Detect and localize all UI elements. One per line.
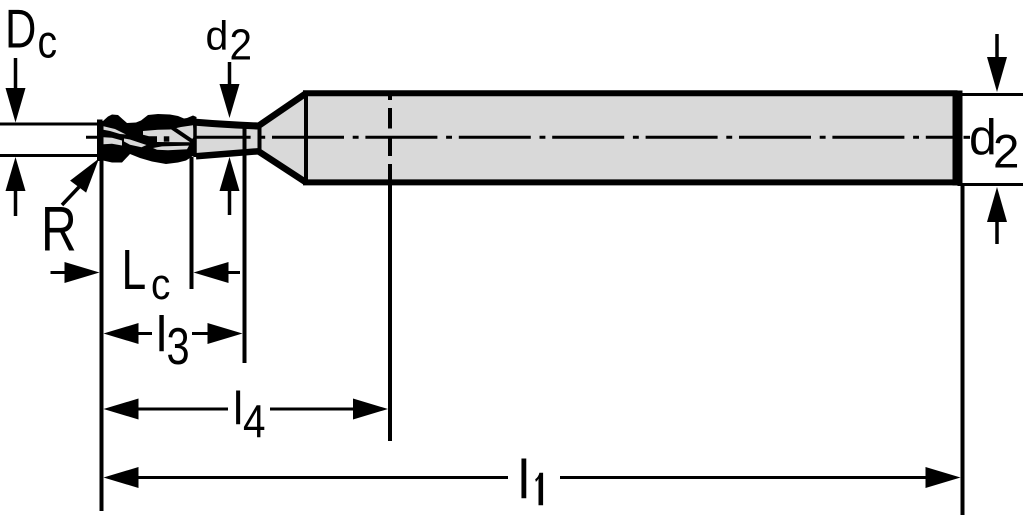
svg-text:4: 4 xyxy=(243,397,266,448)
svg-text:l: l xyxy=(156,307,167,363)
svg-text:l: l xyxy=(518,448,530,510)
svg-text:d: d xyxy=(206,13,229,59)
svg-text:L: L xyxy=(122,238,147,302)
svg-text:l: l xyxy=(233,382,243,434)
svg-text:c: c xyxy=(151,259,170,309)
svg-text:3: 3 xyxy=(167,316,190,375)
svg-text:R: R xyxy=(41,195,77,265)
svg-text:c: c xyxy=(38,17,58,69)
svg-text:2: 2 xyxy=(993,126,1019,179)
svg-text:2: 2 xyxy=(230,20,253,69)
svg-text:D: D xyxy=(5,0,36,60)
